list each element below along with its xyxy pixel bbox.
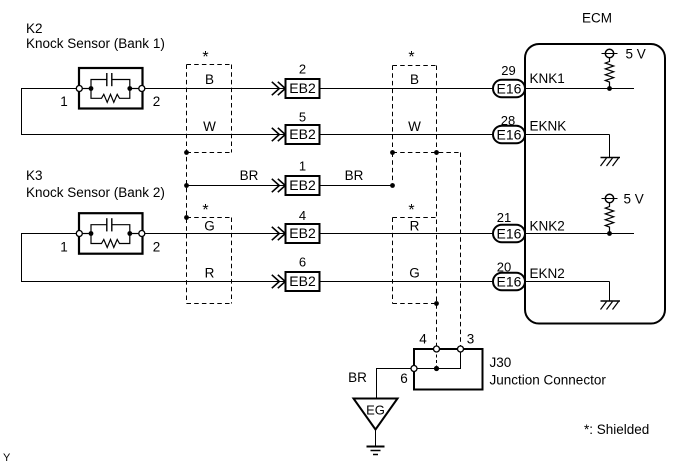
shield dashed box right top — [393, 66, 461, 153]
svg-text:6: 6 — [299, 255, 306, 270]
svg-text:21: 21 — [497, 210, 511, 225]
svg-text:Y: Y — [3, 452, 11, 464]
svg-text:6: 6 — [400, 371, 408, 386]
chassis ground EKNK hatches — [601, 158, 619, 166]
K2 terminal 2 circle — [139, 86, 145, 92]
connector EB2 pin 4 chevron — [272, 227, 286, 240]
svg-text:4: 4 — [299, 208, 306, 223]
wire row5 R: sensor K3 pin1 loop to ECM EKN2 — [22, 234, 610, 282]
svg-text:4: 4 — [419, 332, 427, 347]
svg-text:EG: EG — [366, 403, 385, 418]
earth ground bar 3 — [373, 454, 378, 456]
svg-text:EB2: EB2 — [289, 273, 316, 289]
svg-text:Knock Sensor (Bank 2): Knock Sensor (Bank 2) — [26, 185, 165, 200]
svg-text:R: R — [205, 266, 215, 281]
wire EKN2 ground drop — [609, 282, 611, 302]
svg-text:29: 29 — [501, 63, 515, 78]
svg-text:B: B — [205, 72, 214, 87]
svg-text:EB2: EB2 — [289, 225, 316, 241]
junction dot KNK1/resistor — [607, 86, 612, 91]
connector EB2 pin 1 box — [286, 176, 320, 195]
wire row2 W: sensor K2 pin1 loop to ECM EKNK — [22, 89, 610, 135]
chassis ground EKNK bar — [601, 157, 621, 159]
svg-text:W: W — [203, 119, 216, 134]
J30 pin 3 circle — [458, 346, 464, 352]
svg-text:BR: BR — [348, 370, 367, 385]
junction dot KNK2/resistor — [607, 231, 612, 236]
connector EB2 pin 1 chevron — [272, 179, 286, 192]
svg-text:3: 3 — [467, 332, 475, 347]
connector EB2 pin 5 chevron — [272, 128, 286, 141]
wire EKNK ground drop — [609, 135, 611, 158]
svg-text:K3: K3 — [26, 168, 43, 183]
svg-text:20: 20 — [497, 260, 511, 275]
svg-text:5 V: 5 V — [624, 192, 644, 207]
svg-text:2: 2 — [299, 62, 306, 77]
K2 capacitor plates — [106, 73, 108, 86]
junction dot right bottom box corner — [434, 301, 439, 306]
connector EB2 pin 6 chevron — [272, 275, 286, 288]
J30 internal wire pin6 to pin3 — [414, 349, 461, 369]
chassis ground EKN2 hatches — [601, 302, 619, 310]
junction dot right top box right corner — [434, 150, 439, 155]
pull-up resistor row1 — [605, 58, 613, 89]
svg-text:2: 2 — [153, 240, 161, 255]
svg-text:EKNK: EKNK — [530, 119, 567, 134]
svg-text:1: 1 — [60, 240, 68, 255]
svg-text:EB2: EB2 — [289, 177, 316, 193]
svg-text:G: G — [409, 266, 420, 281]
K2 terminal 1 circle — [76, 86, 82, 92]
svg-text:W: W — [408, 119, 421, 134]
J30 internal dashed wire pin4 down — [436, 349, 438, 369]
EG ground stem — [375, 430, 377, 447]
5V supply symbol row4 crossbar — [602, 198, 618, 200]
shield dashed box left bottom (K3 cable) — [187, 218, 232, 304]
svg-text:R: R — [410, 219, 420, 234]
svg-text:B: B — [410, 72, 419, 87]
ECM box — [525, 44, 665, 324]
K3 terminal 1 circle — [76, 231, 82, 237]
connector EB2 pin 2 chevron — [272, 82, 286, 95]
junction dot left shield to BR — [184, 183, 189, 188]
5V supply symbol row1 crossbar — [602, 53, 618, 55]
shield drain dashed right to BR — [392, 153, 394, 186]
svg-text:KNK1: KNK1 — [530, 71, 565, 86]
svg-text:E16: E16 — [497, 225, 522, 241]
junction dot left bottom box corner — [184, 215, 189, 220]
J30 pin 6 circle — [411, 366, 417, 372]
svg-text:G: G — [204, 219, 215, 234]
K2 resistor branch zigzag — [91, 89, 130, 103]
svg-text:*: * — [408, 49, 414, 66]
svg-text:*: * — [408, 202, 414, 219]
shield dashed box right bottom — [393, 218, 437, 304]
connector EB2 pin 2 box — [286, 79, 320, 98]
svg-text:KNK2: KNK2 — [530, 219, 565, 234]
earth ground bar 1 — [367, 446, 385, 448]
wire BR from EG to J30 pin 6 — [377, 369, 412, 399]
svg-text:Junction Connector: Junction Connector — [490, 373, 607, 388]
svg-text:Knock Sensor (Bank 1): Knock Sensor (Bank 1) — [26, 36, 165, 51]
K2 capacitor branch wire — [91, 80, 107, 89]
earth ground bar 2 — [371, 450, 381, 452]
svg-text:*: * — [202, 202, 208, 219]
chassis ground EKN2 bar — [601, 300, 621, 302]
wire row4 G: sensor K3 pin2 to ECM KNK2 — [142, 233, 634, 235]
svg-text:EB2: EB2 — [289, 126, 316, 142]
knock sensor K2 body — [79, 68, 143, 109]
svg-text:5: 5 — [299, 110, 306, 125]
connector E16 pin 21 oval — [493, 225, 525, 243]
K2 internal stub wires — [79, 88, 91, 90]
K3 internal stub wires — [79, 233, 91, 235]
svg-text:5 V: 5 V — [626, 47, 646, 62]
shield drain dashed line left — [186, 65, 188, 304]
J30 junction connector box — [414, 349, 483, 390]
svg-text:BR: BR — [240, 168, 259, 183]
J30 internal junction dot — [434, 366, 439, 371]
connector EB2 pin 6 box — [286, 272, 320, 291]
ground triangle EG — [354, 399, 398, 430]
5V supply symbol row1 circle — [605, 49, 613, 57]
K3 capacitor plates — [106, 218, 108, 231]
svg-text:K2: K2 — [26, 21, 43, 36]
junction dot right top box left corner — [390, 150, 395, 155]
svg-text:1: 1 — [60, 94, 68, 109]
shield drain dashed vertical to J30 pin 4 — [436, 66, 438, 350]
knock sensor K3 body — [79, 213, 143, 254]
connector EB2 pin 5 box — [286, 125, 320, 144]
wire row3 BR shield drain — [187, 185, 393, 187]
5V supply symbol row4 circle — [605, 194, 613, 202]
svg-text:*: Shielded: *: Shielded — [584, 422, 649, 437]
svg-text:E16: E16 — [497, 80, 522, 96]
K2 internal node dots — [89, 86, 94, 91]
J30 pin 4 circle — [434, 346, 440, 352]
connector E16 pin 28 oval — [493, 126, 525, 144]
wire row1 B: sensor K2 pin2 to ECM KNK1 — [142, 88, 634, 90]
connector E16 pin 29 oval — [493, 80, 525, 98]
svg-text:1: 1 — [299, 159, 306, 174]
shield drain dashed vertical to J30 pin 3 — [460, 153, 462, 350]
svg-text:E16: E16 — [497, 273, 522, 289]
junction dot left top box corner — [184, 150, 189, 155]
svg-text:*: * — [202, 49, 208, 66]
connector E16 pin 20 oval — [493, 273, 525, 291]
K3 terminal 2 circle — [139, 231, 145, 237]
connector EB2 pin 4 box — [286, 224, 320, 243]
svg-text:BR: BR — [345, 168, 364, 183]
svg-text:J30: J30 — [490, 355, 512, 370]
shield dashed box left top (K2 cable) — [187, 65, 232, 153]
svg-text:28: 28 — [501, 113, 515, 128]
junction dot right shield to BR — [390, 183, 395, 188]
svg-text:E16: E16 — [497, 126, 522, 142]
K3 internal node dots — [89, 231, 94, 236]
K3 capacitor branch wire — [91, 225, 107, 234]
svg-text:EKN2: EKN2 — [530, 266, 565, 281]
svg-text:EB2: EB2 — [289, 80, 316, 96]
pull-up resistor row4 — [605, 203, 613, 234]
svg-text:2: 2 — [153, 94, 161, 109]
svg-text:ECM: ECM — [582, 11, 612, 26]
K3 resistor branch zigzag — [91, 234, 130, 248]
